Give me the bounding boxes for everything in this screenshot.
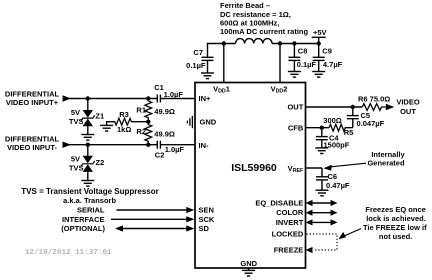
svg-text:GND: GND <box>200 118 217 127</box>
svg-text:5V: 5V <box>71 155 80 164</box>
ferrite bead L1 <box>236 39 272 44</box>
node R1/R2 mid <box>146 120 150 124</box>
capacitor C5 <box>352 107 354 116</box>
svg-text:CFB: CFB <box>288 124 304 133</box>
ground C8 <box>288 72 301 78</box>
svg-text:1kΩ: 1kΩ <box>117 125 131 134</box>
wire: bead to +5V <box>272 43 319 45</box>
svg-text:Ferrite Bead –: Ferrite Bead – <box>220 1 270 10</box>
svg-text:R1: R1 <box>136 106 146 115</box>
svg-text:IN+: IN+ <box>199 94 212 103</box>
+5V supply bar <box>312 36 326 38</box>
wire VREF <box>306 167 323 169</box>
svg-text:COLOR: COLOR <box>276 208 304 217</box>
svg-text:FREEZE: FREEZE <box>274 246 304 255</box>
svg-text:GND: GND <box>240 259 257 268</box>
svg-text:ISL59960: ISL59960 <box>231 162 277 174</box>
wire CFB <box>306 127 330 129</box>
svg-text:Freezes EQ once: Freezes EQ once <box>365 205 425 214</box>
svg-text:lock is achieved.: lock is achieved. <box>366 214 426 223</box>
svg-text:C8: C8 <box>298 46 308 55</box>
svg-text:(OPTIONAL): (OPTIONAL) <box>61 224 105 233</box>
resistor R3 <box>107 118 149 125</box>
node Z1 <box>86 96 90 100</box>
ground Z2 <box>81 181 94 187</box>
svg-text:SCK: SCK <box>199 215 215 224</box>
capacitor C7 <box>202 57 214 60</box>
capacitor C8 <box>293 44 295 58</box>
node OUT/C5 <box>351 105 355 109</box>
ground C7 <box>201 73 214 79</box>
capacitor C4 <box>321 128 323 137</box>
wire OUT <box>306 106 363 108</box>
ground GND pin bottom <box>248 268 250 270</box>
svg-text:not used.: not used. <box>379 232 412 241</box>
node CFB/C4 <box>320 126 324 130</box>
svg-text:R3: R3 <box>119 110 129 119</box>
node Z2 <box>86 143 90 147</box>
node C9 <box>317 41 321 45</box>
svg-text:12/18/2012 11:37:01: 12/18/2012 11:37:01 <box>25 249 112 257</box>
wire to Z1 <box>87 99 89 111</box>
svg-text:4.7µF: 4.7µF <box>323 60 343 69</box>
svg-text:TVS = Transient Voltage Suppre: TVS = Transient Voltage Suppressor <box>21 187 158 196</box>
node VDD1 <box>222 41 226 45</box>
wire IN- <box>69 144 157 146</box>
wire VDD1 <box>223 44 225 83</box>
capacitor C6 <box>321 168 323 177</box>
resistor R6 <box>362 104 386 111</box>
svg-text:SERIAL: SERIAL <box>77 206 105 215</box>
wire EQ_DISABLE double arrow <box>306 200 338 206</box>
ground C9 <box>312 72 325 78</box>
resistor R5 <box>329 124 353 131</box>
wire IN+ <box>69 98 157 100</box>
svg-text:R2: R2 <box>136 127 146 136</box>
wire INVERT double arrow <box>306 219 338 225</box>
svg-text:R5: R5 <box>344 128 354 137</box>
svg-text:0.47µF: 0.47µF <box>326 181 350 190</box>
svg-text:EQ_DISABLE: EQ_DISABLE <box>255 199 303 208</box>
wire COLOR double arrow <box>306 210 338 216</box>
svg-text:SD: SD <box>199 224 210 233</box>
svg-text:0.047µF: 0.047µF <box>357 119 385 128</box>
arrowhead input- <box>63 142 72 148</box>
wire to Z2 <box>87 145 89 156</box>
ground R3 <box>100 125 113 131</box>
resistor R1 <box>145 99 152 122</box>
svg-text:INTERFACE: INTERFACE <box>62 215 105 224</box>
svg-text:TVS: TVS <box>69 117 84 126</box>
svg-text:C9: C9 <box>322 46 332 55</box>
wire VDD2 <box>279 44 281 83</box>
TVS diode Z2 <box>81 156 95 172</box>
svg-text:5V: 5V <box>71 108 80 117</box>
svg-text:Z1: Z1 <box>95 112 104 121</box>
node VDD2 <box>278 41 282 45</box>
node C8 <box>292 41 296 45</box>
svg-text:OUT: OUT <box>400 107 416 116</box>
svg-text:TVS: TVS <box>69 164 84 173</box>
resistor R2 <box>145 122 152 145</box>
arrowhead input+ <box>63 95 72 101</box>
svg-text:Tie FREEZE low if: Tie FREEZE low if <box>363 223 427 232</box>
svg-text:VIDEO: VIDEO <box>396 97 420 106</box>
svg-text:VIDEO INPUT+: VIDEO INPUT+ <box>6 98 59 107</box>
svg-text:1.0µF: 1.0µF <box>164 90 184 99</box>
wire: C7 to ferrite bead <box>208 44 236 58</box>
svg-text:49.9Ω: 49.9Ω <box>154 129 175 138</box>
wire SCK arrow <box>111 218 187 220</box>
ground C4 <box>315 148 328 154</box>
arrow freeze note <box>344 229 361 236</box>
svg-text:IN-: IN- <box>199 141 210 150</box>
svg-text:+5V: +5V <box>313 28 327 37</box>
svg-text:1.0µF: 1.0µF <box>165 145 185 154</box>
svg-text:C2: C2 <box>155 151 165 160</box>
svg-text:R6 75.0Ω: R6 75.0Ω <box>358 95 390 104</box>
wire LOCKED dotted feedback to FREEZE <box>306 234 338 253</box>
capacitor C9 <box>318 44 320 58</box>
svg-text:0.1µF: 0.1µF <box>186 61 206 70</box>
svg-text:C1: C1 <box>154 83 164 92</box>
svg-text:300Ω: 300Ω <box>323 116 342 125</box>
wire SEN arrow <box>117 209 188 211</box>
svg-text:Generated: Generated <box>367 159 405 168</box>
svg-text:OUT: OUT <box>287 103 303 112</box>
svg-text:0.1µF: 0.1µF <box>297 60 317 69</box>
ground Z1 <box>81 135 94 141</box>
IC U1 ISL59960 box <box>195 83 306 269</box>
svg-text:C7: C7 <box>193 48 203 57</box>
svg-text:a.k.a. Transorb: a.k.a. Transorb <box>63 196 116 205</box>
ground GND pin left (sideways) <box>187 116 192 128</box>
svg-text:INVERT: INVERT <box>276 218 304 227</box>
ground C6 <box>316 190 329 196</box>
arrow internally generated <box>331 163 366 167</box>
svg-text:VIDEO INPUT-: VIDEO INPUT- <box>7 143 58 152</box>
capacitor C1 <box>157 95 160 103</box>
svg-text:100mA DC current rating: 100mA DC current rating <box>220 27 308 36</box>
TVS diode Z1 <box>81 110 95 126</box>
svg-text:600Ω at 100MHz,: 600Ω at 100MHz, <box>220 19 279 28</box>
svg-text:SEN: SEN <box>199 206 214 215</box>
node R2 bottom <box>146 143 150 147</box>
arrowhead video out <box>386 104 395 110</box>
svg-text:C6: C6 <box>328 172 338 181</box>
svg-text:49.9Ω: 49.9Ω <box>154 107 175 116</box>
node R1 top <box>146 96 150 100</box>
wire SD double arrow <box>121 228 187 230</box>
capacitor C2 <box>157 141 160 149</box>
svg-text:LOCKED: LOCKED <box>272 230 304 239</box>
svg-text:Z2: Z2 <box>96 158 105 167</box>
